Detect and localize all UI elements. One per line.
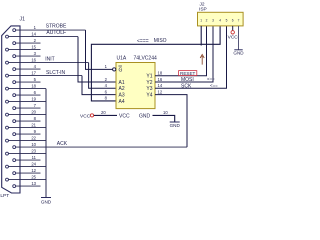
ground bus of J1 <box>45 89 47 198</box>
svg-text:<===: <=== <box>137 38 149 44</box>
J2 pin numbers inside box <box>200 18 239 22</box>
ground symbol at U1A pin 10 <box>170 121 180 123</box>
svg-text:SCK: SCK <box>181 83 192 89</box>
svg-text:24: 24 <box>31 161 36 166</box>
svg-text:22: 22 <box>31 135 36 140</box>
svg-text:15: 15 <box>31 44 36 49</box>
svg-text:MOSI: MOSI <box>181 77 194 83</box>
wire Y1 to RESET / J2 pin 2 <box>155 26 207 76</box>
svg-text:17: 17 <box>31 70 36 75</box>
svg-text:19: 19 <box>31 96 36 101</box>
wire Y4 to ACK row <box>155 95 187 148</box>
svg-text:21: 21 <box>31 122 36 127</box>
svg-text:MISO: MISO <box>154 38 167 44</box>
svg-text:GND: GND <box>170 123 181 128</box>
wire INIT to A2 <box>89 63 116 89</box>
J2 pin 6 wire to VCC <box>232 26 234 31</box>
wire MISO from J2 to A4 <box>91 26 220 101</box>
svg-text:12: 12 <box>158 89 163 94</box>
J1 pin numbers <box>31 25 36 186</box>
wire AUTOLF to A1 <box>78 37 116 82</box>
svg-text:25: 25 <box>31 174 36 179</box>
svg-text:20: 20 <box>31 109 36 114</box>
svg-text:INIT: INIT <box>45 57 54 63</box>
svg-text:11: 11 <box>32 155 37 160</box>
svg-text:Y3: Y3 <box>146 86 152 92</box>
svg-text:2: 2 <box>206 18 208 22</box>
svg-text:6: 6 <box>232 18 234 22</box>
svg-text:16: 16 <box>31 57 36 62</box>
J1 pin circles <box>6 29 16 188</box>
svg-text:18: 18 <box>158 71 163 76</box>
svg-text:12: 12 <box>31 168 36 173</box>
svg-text:Y2: Y2 <box>146 80 152 86</box>
U1A right pin numbers <box>158 71 163 95</box>
svg-text:GND: GND <box>139 113 151 119</box>
svg-text:VCC: VCC <box>119 113 130 119</box>
svg-text:3: 3 <box>212 18 214 22</box>
VCC power port at J2 (red) <box>231 31 234 34</box>
svg-text:4: 4 <box>219 18 221 22</box>
U1A pin names Y1-Y4 <box>146 74 152 99</box>
connector J2 box <box>198 12 244 26</box>
svg-text:A3: A3 <box>119 93 125 99</box>
svg-text:10: 10 <box>31 142 36 147</box>
J2 pin 7 wire to GND <box>238 26 240 50</box>
svg-text:RESET: RESET <box>180 71 196 76</box>
svg-text:74LVC244: 74LVC244 <box>134 56 157 62</box>
svg-text:ISP: ISP <box>199 7 207 13</box>
U1A left pin numbers <box>105 64 108 101</box>
svg-text:ACK: ACK <box>57 141 68 147</box>
svg-text:14: 14 <box>158 83 163 88</box>
U1A power pin 10 GND <box>153 115 175 122</box>
svg-text:13: 13 <box>31 181 36 186</box>
wire SLCT-IN to A3 <box>82 76 116 95</box>
svg-text:VCC: VCC <box>228 35 239 41</box>
svg-text:SLCT-IN: SLCT-IN <box>46 70 66 76</box>
svg-text:10: 10 <box>163 110 168 115</box>
svg-text:Y1: Y1 <box>146 74 152 80</box>
svg-text:U1A: U1A <box>117 56 127 62</box>
svg-text:G: G <box>119 67 123 73</box>
svg-text:J1: J1 <box>20 17 26 23</box>
svg-text:LPT: LPT <box>0 193 9 199</box>
svg-text:5: 5 <box>226 18 228 22</box>
wire Y3 to SCK / J2 pin 5 <box>155 26 227 88</box>
svg-text:VCC: VCC <box>80 113 91 119</box>
svg-text:A4: A4 <box>119 99 125 105</box>
J1 pin stubs <box>8 30 187 186</box>
buffer U1A box <box>116 63 155 109</box>
svg-text:16: 16 <box>158 77 163 82</box>
svg-text:A1: A1 <box>119 80 125 86</box>
svg-text:Y4: Y4 <box>146 93 152 99</box>
svg-text:A2: A2 <box>119 86 125 92</box>
svg-text:GND: GND <box>41 200 52 205</box>
wire STROBE to U1A OE <box>86 30 113 69</box>
svg-text:J2: J2 <box>200 1 205 7</box>
VCC power port (red) <box>90 114 93 117</box>
svg-text:GND: GND <box>233 50 244 55</box>
ground symbol at J1 bus <box>41 197 51 199</box>
svg-text:23: 23 <box>31 148 36 153</box>
ground symbol at J2 <box>234 49 242 51</box>
svg-text:STROBE: STROBE <box>46 23 67 29</box>
svg-text:14: 14 <box>31 31 36 36</box>
svg-text:20: 20 <box>101 110 106 115</box>
U1A power pin 20 VCC <box>94 114 117 116</box>
svg-text:7: 7 <box>238 18 240 22</box>
net label RESET (red box) <box>179 71 197 76</box>
svg-text:<==: <== <box>207 77 215 82</box>
wire Y2 to MOSI / J2 pin 3 <box>155 26 213 82</box>
svg-text:18: 18 <box>31 83 36 88</box>
svg-text:1: 1 <box>200 18 202 22</box>
U1A OE bubble <box>113 68 116 71</box>
connector J1 body <box>2 26 20 193</box>
J2 pin 1 wire with arrow <box>200 26 202 46</box>
svg-text:<==: <== <box>210 83 218 88</box>
svg-text:AUTOLF: AUTOLF <box>46 30 66 36</box>
